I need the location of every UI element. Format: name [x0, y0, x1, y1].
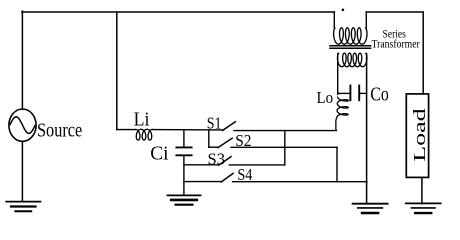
svg-text:S4: S4 — [237, 165, 252, 184]
svg-text:Ci: Ci — [150, 143, 169, 165]
svg-text:Transformer: Transformer — [372, 39, 421, 51]
svg-text:Li: Li — [134, 109, 150, 131]
svg-text:S3: S3 — [208, 149, 226, 168]
svg-text:S1: S1 — [207, 114, 222, 133]
svg-text:Lo: Lo — [317, 88, 334, 107]
svg-text:Source: Source — [37, 119, 82, 141]
svg-text:Load: Load — [410, 107, 429, 162]
svg-text:Co: Co — [370, 83, 388, 105]
svg-text:S2: S2 — [235, 131, 251, 150]
